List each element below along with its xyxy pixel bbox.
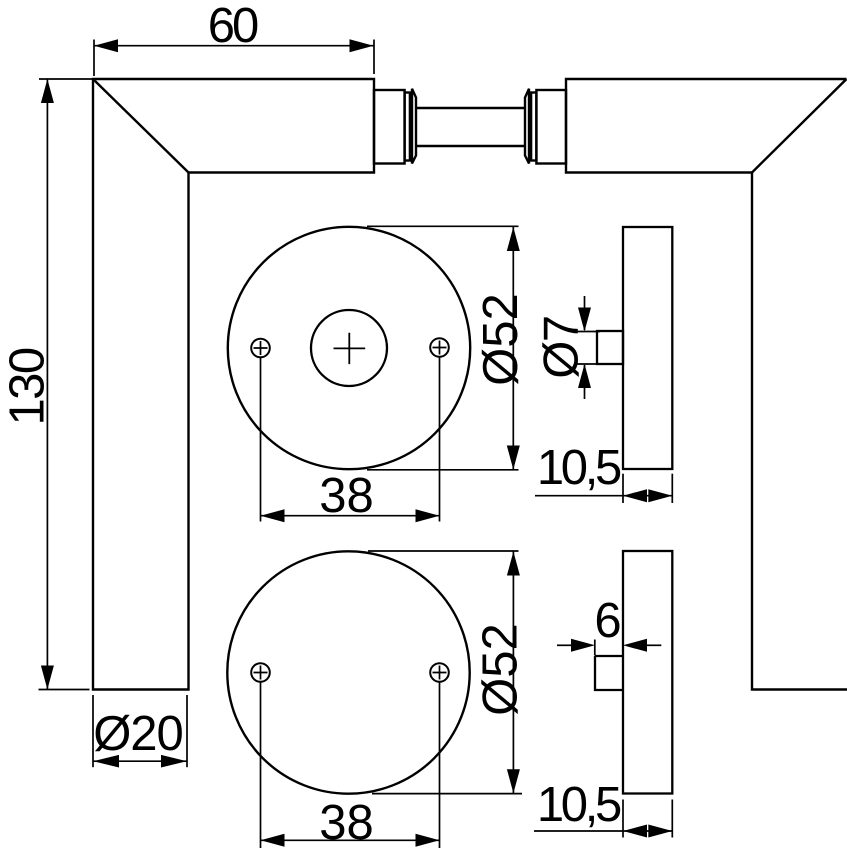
svg-text:Ø20: Ø20 — [93, 707, 183, 761]
svg-text:130: 130 — [1, 348, 55, 425]
svg-text:38: 38 — [319, 796, 374, 850]
svg-text:10,5: 10,5 — [537, 778, 621, 832]
svg-text:Ø52: Ø52 — [474, 293, 528, 386]
svg-text:Ø7: Ø7 — [535, 316, 589, 378]
svg-text:Ø52: Ø52 — [474, 623, 528, 716]
svg-text:38: 38 — [319, 469, 374, 523]
svg-text:6: 6 — [594, 594, 621, 648]
svg-text:10,5: 10,5 — [537, 441, 621, 495]
svg-text:60: 60 — [208, 0, 258, 53]
